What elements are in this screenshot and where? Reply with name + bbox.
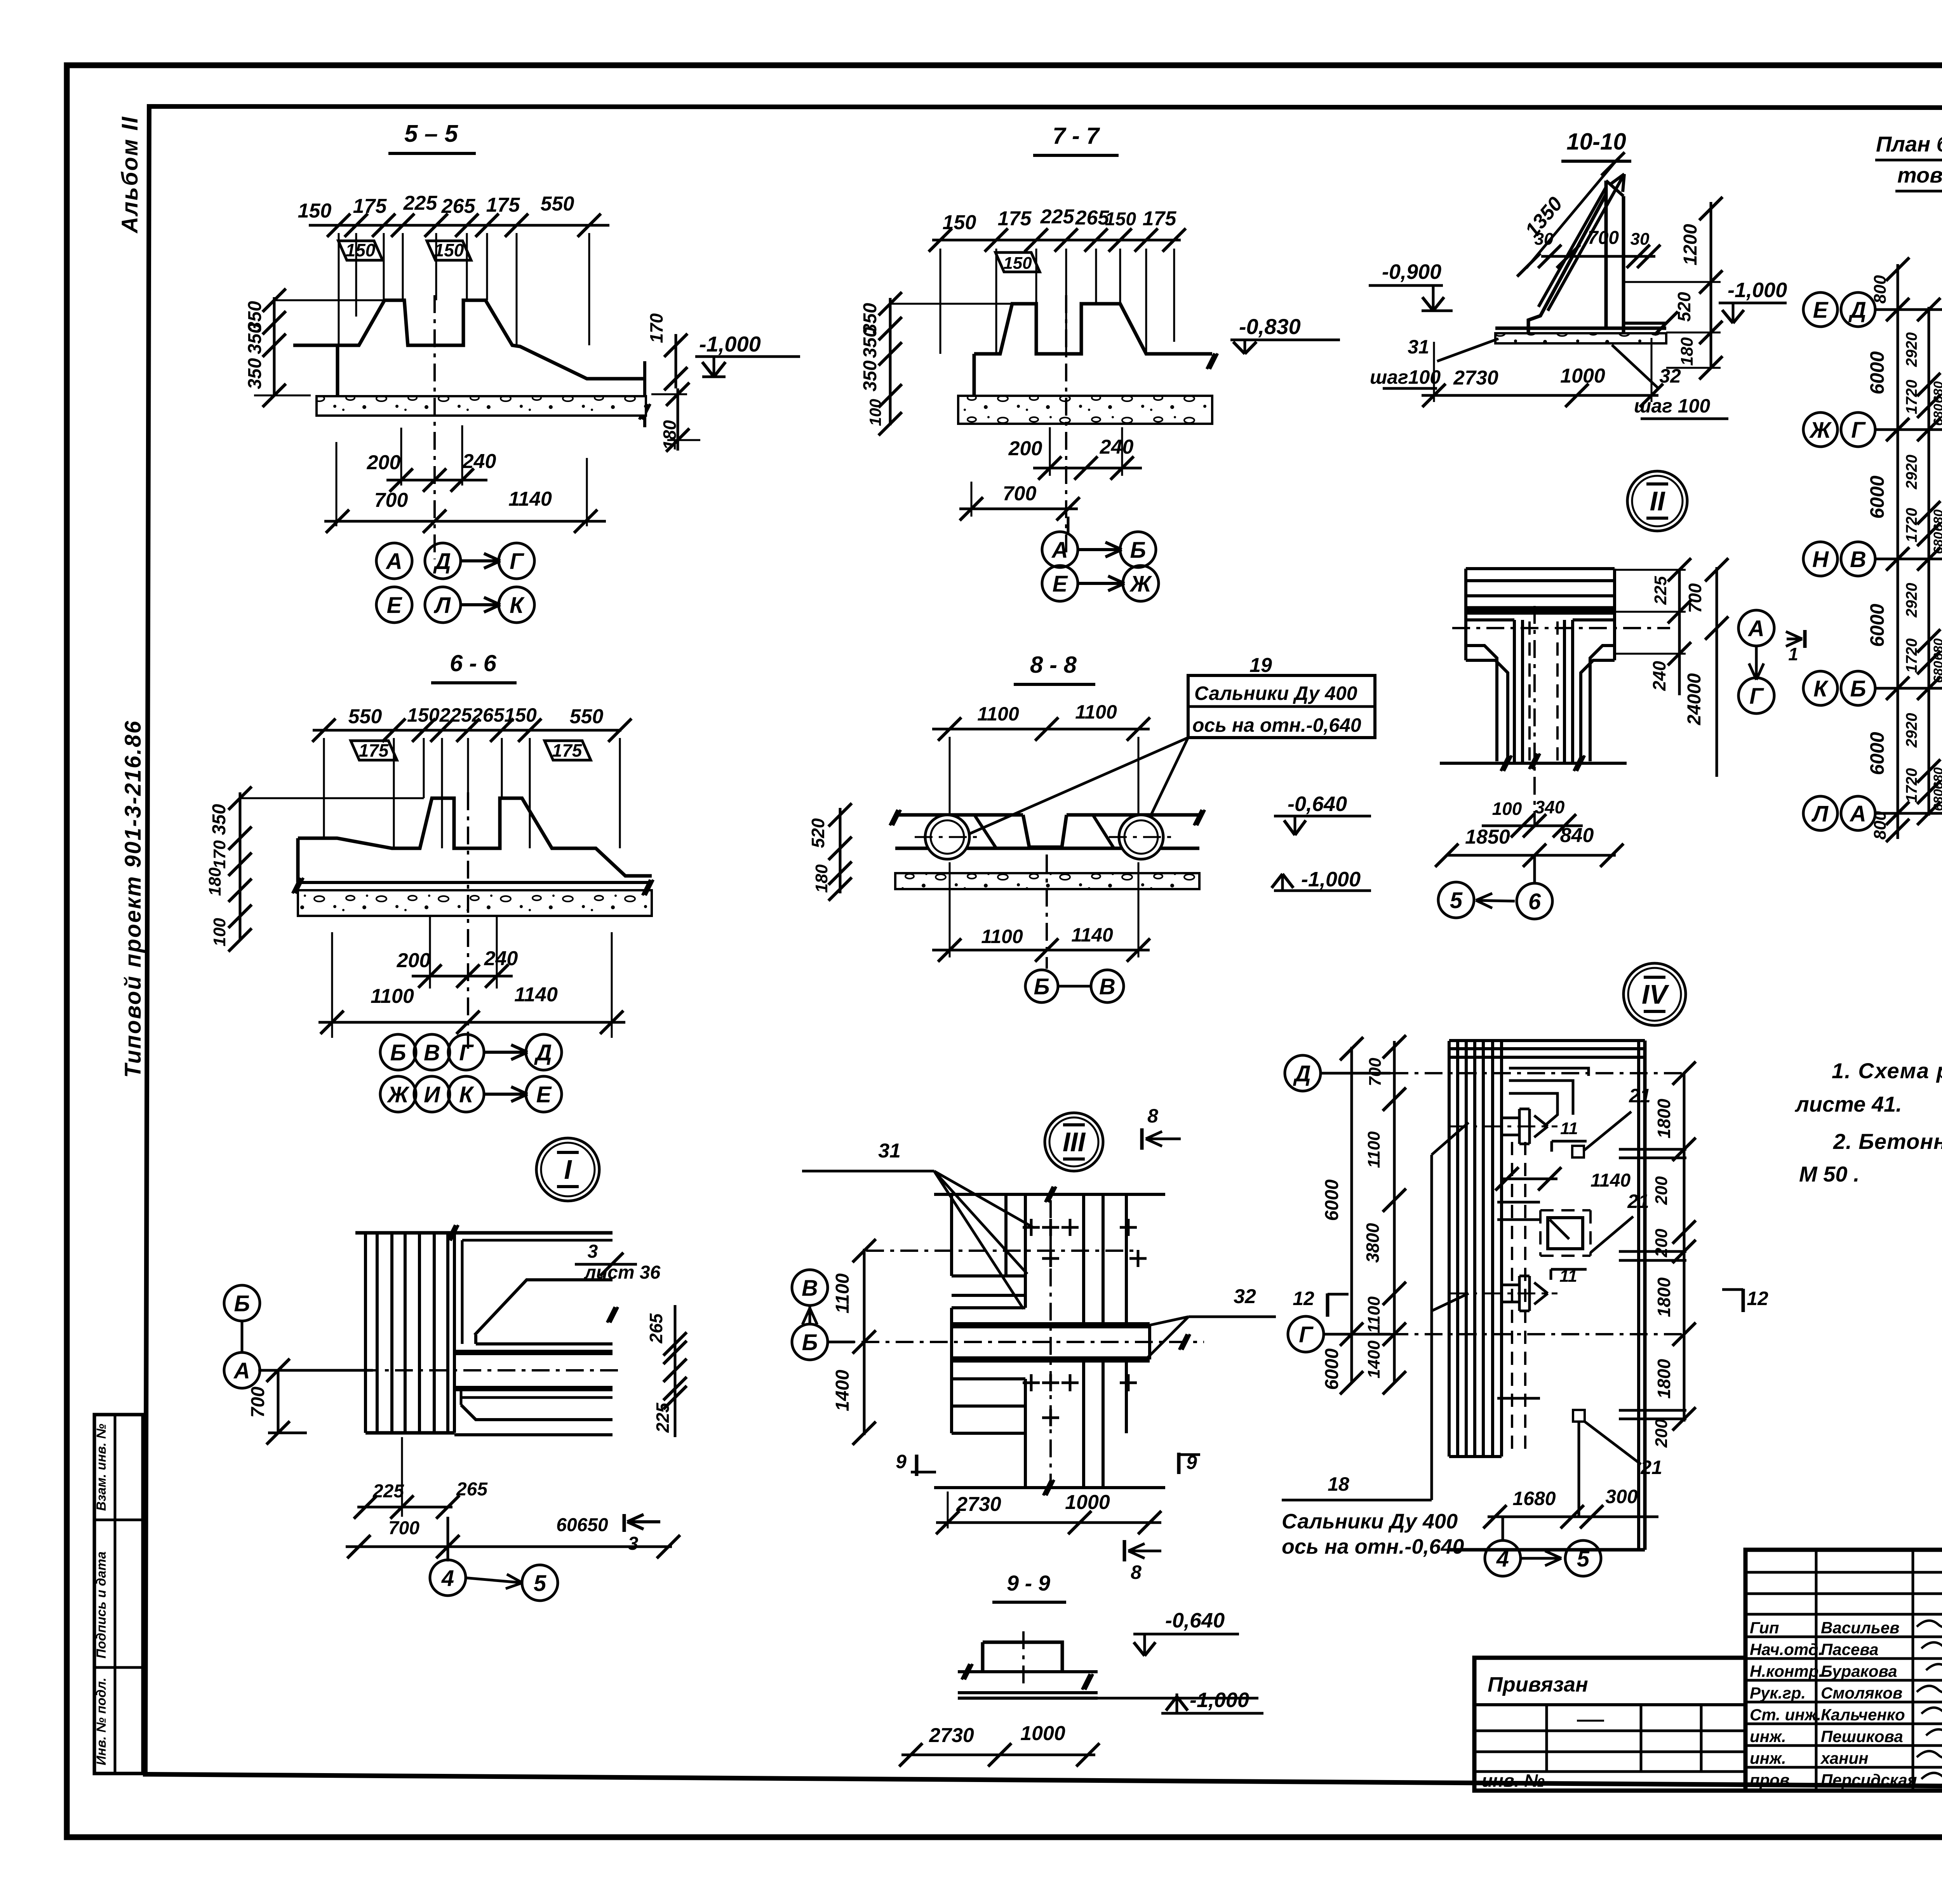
svg-text:32: 32 bbox=[1234, 1285, 1256, 1308]
svg-text:листе 41.: листе 41. bbox=[1794, 1092, 1902, 1116]
svg-text:240: 240 bbox=[462, 450, 496, 473]
svg-text:30: 30 bbox=[1535, 230, 1554, 249]
svg-text:-0,900: -0,900 bbox=[1382, 260, 1441, 284]
svg-text:150: 150 bbox=[298, 200, 332, 222]
section 10-10 rebar diagonal pos31 bbox=[1548, 174, 1624, 311]
svg-text:225: 225 bbox=[403, 192, 438, 214]
section 9-9 profile bbox=[983, 1642, 1062, 1672]
plan I bottom dims 225 265 bbox=[401, 1437, 403, 1517]
svg-text:Взам. инв. №: Взам. инв. № bbox=[94, 1424, 109, 1511]
svg-text:1140: 1140 bbox=[1590, 1170, 1631, 1191]
plan III section mark 8 bottom bbox=[1123, 1540, 1126, 1561]
svg-text:180: 180 bbox=[205, 867, 224, 896]
svg-text:240: 240 bbox=[1100, 436, 1134, 458]
section 5-5 extension lines bbox=[338, 233, 340, 345]
svg-text:31: 31 bbox=[1408, 336, 1429, 358]
plan IV axis circle D bbox=[1285, 1055, 1321, 1091]
svg-text:21: 21 bbox=[1629, 1085, 1651, 1107]
svg-text:Альбом II: Альбом II bbox=[117, 116, 143, 234]
svg-text:1800: 1800 bbox=[1654, 1277, 1674, 1317]
svg-text:100: 100 bbox=[1492, 799, 1522, 819]
svg-text:Г: Г bbox=[510, 549, 524, 574]
section 6-6 centerline bbox=[467, 792, 469, 1049]
svg-text:1720: 1720 bbox=[1903, 380, 1920, 414]
svg-text:Типовой проект 901-3-216.86: Типовой проект 901-3-216.86 bbox=[120, 720, 146, 1078]
svg-text:21: 21 bbox=[1627, 1190, 1649, 1212]
svg-text:Г: Г bbox=[1851, 418, 1866, 443]
section 8-8 top dim 1100 1100 bbox=[932, 728, 1150, 731]
svg-text:3: 3 bbox=[628, 1533, 639, 1554]
svg-text:225: 225 bbox=[1651, 576, 1670, 605]
plan I centerline bbox=[258, 1369, 621, 1371]
svg-text:150: 150 bbox=[434, 240, 464, 260]
svg-text:Д: Д bbox=[433, 549, 451, 574]
svg-text:350: 350 bbox=[245, 358, 265, 389]
svg-text:800: 800 bbox=[1871, 811, 1890, 840]
svg-text:200: 200 bbox=[397, 949, 431, 972]
svg-text:240: 240 bbox=[1649, 661, 1669, 691]
plan IV section marks 12 right bbox=[1742, 1289, 1745, 1312]
svg-text:1100: 1100 bbox=[981, 926, 1023, 947]
plan IV center rebar band bbox=[1511, 1142, 1513, 1453]
svg-text:680: 680 bbox=[1931, 532, 1942, 554]
svg-text:Б: Б bbox=[1850, 676, 1866, 701]
svg-text:ось на отн.-0,640: ось на отн.-0,640 bbox=[1282, 1535, 1464, 1558]
svg-text:Ж: Ж bbox=[386, 1082, 410, 1107]
plan III top edge bbox=[934, 1193, 1165, 1196]
svg-text:1. Схема расположения поз.: 1. Схема расположения поз. 31,32 приведе… bbox=[1832, 1058, 1942, 1083]
svg-text:8: 8 bbox=[1131, 1561, 1142, 1583]
plan III dash centerline vertical bbox=[1049, 1200, 1052, 1488]
plan IV bottom band bbox=[1449, 1455, 1502, 1458]
svg-text:К: К bbox=[459, 1082, 474, 1107]
plan III horizontal centerline B bbox=[866, 1250, 1136, 1252]
svg-text:170: 170 bbox=[646, 313, 666, 343]
plan III bottom edge bbox=[934, 1486, 1165, 1489]
svg-text:В: В bbox=[802, 1276, 818, 1301]
svg-text:-1,000: -1,000 bbox=[1728, 278, 1787, 302]
svg-text:2920: 2920 bbox=[1903, 455, 1920, 490]
svg-text:550: 550 bbox=[348, 705, 382, 728]
section 5-5 top dimension line bbox=[309, 224, 609, 227]
svg-text:31: 31 bbox=[878, 1140, 901, 1162]
plan III thick band 1 bbox=[952, 1322, 1150, 1328]
svg-text:680: 680 bbox=[1931, 639, 1942, 661]
section 8-8 axis circles B V bbox=[1046, 855, 1048, 969]
plan IV axis circles 4 5 bbox=[1502, 1517, 1504, 1541]
section 5-5 concrete profile bbox=[293, 300, 646, 379]
svg-text:6000: 6000 bbox=[1866, 604, 1888, 647]
svg-text:6000: 6000 bbox=[1866, 732, 1888, 775]
svg-text:2730: 2730 bbox=[1453, 367, 1498, 389]
svg-text:6 - 6: 6 - 6 bbox=[450, 650, 497, 676]
svg-text:550: 550 bbox=[541, 193, 574, 215]
svg-text:2920: 2920 bbox=[1903, 332, 1920, 367]
svg-text:680: 680 bbox=[1931, 768, 1942, 790]
svg-text:9 - 9: 9 - 9 bbox=[1007, 1571, 1050, 1595]
svg-text:680: 680 bbox=[1931, 404, 1942, 426]
svg-text:IV: IV bbox=[1642, 979, 1669, 1009]
plan I section mark 3 bottom bbox=[623, 1514, 626, 1532]
svg-text:Пешикова: Пешикова bbox=[1821, 1727, 1903, 1746]
svg-text:Ст. инж.: Ст. инж. bbox=[1750, 1706, 1821, 1724]
sidebar stamp boxes bbox=[94, 1415, 143, 1773]
svg-text:6: 6 bbox=[1528, 889, 1541, 914]
svg-text:300: 300 bbox=[1605, 1486, 1638, 1507]
section 5-5 axis circles row 2 bbox=[376, 587, 412, 623]
svg-text:Г: Г bbox=[459, 1040, 474, 1065]
svg-text:Нач.отд.: Нач.отд. bbox=[1750, 1640, 1823, 1659]
svg-text:180: 180 bbox=[1677, 337, 1697, 366]
svg-text:Пасева: Пасева bbox=[1821, 1640, 1878, 1659]
section 10-10 wall profile bbox=[1604, 181, 1608, 328]
svg-text:225: 225 bbox=[372, 1481, 404, 1502]
svg-text:Привязан: Привязан bbox=[1488, 1673, 1588, 1696]
svg-text:800: 800 bbox=[1871, 275, 1890, 304]
svg-text:1100: 1100 bbox=[977, 703, 1019, 725]
svg-text:12: 12 bbox=[1747, 1288, 1768, 1309]
section 8-8 profile bbox=[895, 813, 1023, 817]
svg-text:175: 175 bbox=[552, 740, 583, 761]
svg-text:4: 4 bbox=[1496, 1546, 1509, 1572]
plan I bottom dims 700 60650 bbox=[346, 1545, 672, 1548]
svg-text:5 – 5: 5 – 5 bbox=[404, 120, 458, 147]
section 7-7 gravel strip bbox=[958, 396, 1212, 424]
svg-text:700: 700 bbox=[388, 1518, 419, 1539]
svg-text:11: 11 bbox=[1560, 1119, 1578, 1138]
svg-text:-0,640: -0,640 bbox=[1288, 792, 1347, 816]
axis strip plan horizontal axes and circles bbox=[1803, 292, 1838, 327]
section 5-5 left dimension chain bbox=[273, 297, 276, 396]
axis strip plan left dim chain 6000 bbox=[1897, 264, 1899, 839]
plan I nested corner upper bbox=[462, 1239, 613, 1242]
svg-text:520: 520 bbox=[808, 818, 828, 848]
svg-text:ось на отн.-0,640: ось на отн.-0,640 bbox=[1192, 714, 1361, 736]
section 5-5 dim 700 1140 bbox=[336, 442, 338, 526]
section 5-5 dim 200 240 bbox=[400, 428, 402, 486]
section 5-5 boxed label 150 left bbox=[338, 241, 383, 260]
section 7-7 centerline bbox=[1065, 295, 1067, 555]
svg-text:8 - 8: 8 - 8 bbox=[1030, 652, 1077, 678]
svg-text:товки по оси 4: товки по оси 4 bbox=[1897, 163, 1942, 187]
svg-text:8: 8 bbox=[1147, 1105, 1158, 1127]
svg-text:1000: 1000 bbox=[1560, 365, 1605, 387]
svg-text:1800: 1800 bbox=[1654, 1098, 1674, 1138]
section 6-6 extension lines bbox=[323, 738, 325, 838]
plan IV central opening box bbox=[1540, 1209, 1590, 1211]
section 6-6 dim 1100 1140 bbox=[331, 932, 333, 1038]
section 8-8 gland circle right bbox=[1119, 815, 1163, 859]
svg-text:1720: 1720 bbox=[1903, 508, 1920, 543]
section 5-5 boxed label 150 right bbox=[427, 241, 471, 260]
svg-text:В: В bbox=[1099, 974, 1115, 999]
svg-text:18: 18 bbox=[1328, 1473, 1349, 1495]
plan I marker circle bbox=[536, 1138, 599, 1201]
svg-text:680: 680 bbox=[1931, 510, 1942, 532]
plan IV small square 21 top bbox=[1572, 1146, 1584, 1157]
plan III left wall bbox=[950, 1194, 953, 1276]
svg-text:225: 225 bbox=[653, 1402, 673, 1433]
svg-text:Васильев: Васильев bbox=[1821, 1619, 1900, 1637]
svg-text:Рук.гр.: Рук.гр. bbox=[1750, 1684, 1806, 1702]
svg-text:680: 680 bbox=[1931, 789, 1942, 811]
svg-text:1850: 1850 bbox=[1465, 826, 1510, 848]
svg-text:200: 200 bbox=[367, 451, 401, 474]
svg-text:520: 520 bbox=[1674, 292, 1694, 322]
svg-text:инв. №: инв. № bbox=[1482, 1770, 1545, 1791]
section 10-10 dim 30 700 30 bbox=[1541, 255, 1655, 258]
plan II bottom dims 100 340 bbox=[1482, 825, 1583, 827]
svg-text:21: 21 bbox=[1640, 1457, 1662, 1478]
plan IV marker circle bbox=[1624, 963, 1686, 1025]
svg-text:Ж: Ж bbox=[1129, 571, 1152, 597]
svg-text:А: А bbox=[385, 549, 402, 574]
svg-text:6000: 6000 bbox=[1866, 351, 1888, 394]
svg-text:Гип: Гип bbox=[1750, 1619, 1779, 1637]
section 7-7 axis circles bbox=[1067, 517, 1070, 533]
svg-text:200: 200 bbox=[1652, 1229, 1671, 1258]
svg-text:60650: 60650 bbox=[556, 1515, 608, 1535]
plan III marker circle bbox=[1045, 1113, 1103, 1171]
section 8-8 gland circle left bbox=[925, 815, 969, 859]
plan II axis circles 5 6 bbox=[1438, 882, 1474, 918]
svg-text:350: 350 bbox=[860, 327, 881, 358]
svg-text:700: 700 bbox=[1003, 482, 1037, 505]
svg-text:шаг 100: шаг 100 bbox=[1634, 395, 1710, 417]
svg-text:2730: 2730 bbox=[956, 1493, 1001, 1516]
svg-text:Л: Л bbox=[1811, 801, 1829, 827]
section 8-8 bottom dim 1100 1140 bbox=[949, 862, 951, 957]
svg-text:Е: Е bbox=[387, 593, 403, 618]
plan I outline bbox=[355, 1231, 613, 1235]
plan III section marks 9 bbox=[915, 1455, 919, 1476]
svg-text:Е: Е bbox=[1813, 298, 1829, 323]
plan II stem walls bbox=[1513, 620, 1516, 763]
title block privyazan box bbox=[1474, 1658, 1745, 1791]
svg-text:180: 180 bbox=[812, 864, 831, 893]
section 7-7 left dimension chain bbox=[889, 298, 892, 425]
svg-text:Буракова: Буракова bbox=[1821, 1662, 1897, 1680]
svg-text:инж.: инж. bbox=[1750, 1749, 1786, 1767]
svg-text:1100: 1100 bbox=[832, 1273, 853, 1314]
svg-text:пров.: пров. bbox=[1750, 1771, 1794, 1789]
section 7-7 top dimension line bbox=[932, 239, 1181, 242]
svg-text:1720: 1720 bbox=[1903, 639, 1920, 673]
plan IV nested corner top bbox=[1449, 1039, 1645, 1042]
svg-text:1200: 1200 bbox=[1680, 224, 1701, 265]
plan I right dims 265 225 bbox=[674, 1305, 677, 1437]
svg-text:350: 350 bbox=[209, 804, 230, 835]
plan IV left dim chains bbox=[1350, 1047, 1353, 1383]
svg-text:700: 700 bbox=[1588, 228, 1619, 248]
plan III center verticals bbox=[1004, 1194, 1008, 1276]
svg-text:1140: 1140 bbox=[1071, 924, 1113, 946]
svg-text:Д: Д bbox=[1293, 1061, 1311, 1086]
plan I wall hatch verticals bbox=[364, 1233, 367, 1433]
svg-text:170: 170 bbox=[210, 840, 229, 869]
svg-text:ханин: ханин bbox=[1820, 1749, 1869, 1767]
plan IV wall band verticals bbox=[1448, 1041, 1451, 1457]
section 8-8 left dims 520 180 bbox=[839, 808, 842, 893]
section 6-6 left dimension chain bbox=[239, 792, 242, 940]
plan II bottom dims 1850 840 bbox=[1447, 854, 1616, 857]
plan III bottom dim 2730 1000 bbox=[947, 1492, 949, 1528]
section 7-7 boxed label 150 bbox=[995, 252, 1040, 272]
plan III section mark 8 top bbox=[1140, 1128, 1144, 1150]
svg-text:1000: 1000 bbox=[1020, 1722, 1065, 1745]
svg-text:1100: 1100 bbox=[1364, 1131, 1383, 1168]
svg-text:12: 12 bbox=[1293, 1288, 1314, 1309]
svg-text:700: 700 bbox=[248, 1387, 268, 1418]
svg-text:А: А bbox=[1051, 538, 1068, 563]
plan IV small square 21 bottom bbox=[1573, 1410, 1585, 1422]
section 6-6 dim 200 240 bbox=[429, 917, 431, 989]
plan I dim 700 left bbox=[277, 1370, 280, 1433]
svg-text:1100: 1100 bbox=[1075, 701, 1117, 723]
svg-text:180: 180 bbox=[660, 420, 680, 450]
title block signature table bbox=[1745, 1550, 1942, 1791]
svg-text:В: В bbox=[1850, 547, 1866, 572]
svg-text:175: 175 bbox=[353, 195, 387, 218]
section 7-7 dim 700 bbox=[971, 482, 973, 517]
svg-text:265: 265 bbox=[456, 1479, 488, 1500]
svg-text:III: III bbox=[1063, 1127, 1086, 1157]
svg-text:4: 4 bbox=[441, 1566, 454, 1591]
svg-text:350: 350 bbox=[860, 360, 881, 392]
svg-text:В: В bbox=[424, 1040, 440, 1065]
section 5-5 right dim 170 bbox=[675, 334, 677, 388]
svg-text:700: 700 bbox=[1366, 1058, 1385, 1086]
svg-text:150: 150 bbox=[346, 240, 376, 260]
svg-text:Н.контр.: Н.контр. bbox=[1750, 1662, 1823, 1680]
svg-text:А: А bbox=[1747, 616, 1765, 641]
section 6-6 gravel strip bbox=[298, 890, 652, 916]
svg-text:1100: 1100 bbox=[1364, 1296, 1383, 1333]
svg-text:680: 680 bbox=[1931, 381, 1942, 404]
svg-text:200: 200 bbox=[1652, 1176, 1671, 1205]
axis strip plan second dim chain 2920 1720 bbox=[1928, 307, 1930, 816]
section 6-6 boxed label 175 right bbox=[545, 741, 591, 760]
plan III rebar crosses lower bbox=[1023, 1382, 1040, 1384]
svg-text:5: 5 bbox=[1577, 1546, 1590, 1572]
svg-text:6000: 6000 bbox=[1322, 1179, 1342, 1221]
svg-text:1: 1 bbox=[1788, 644, 1798, 664]
plan III axis centerline bbox=[827, 1341, 1204, 1343]
svg-text:6000: 6000 bbox=[1322, 1348, 1342, 1390]
svg-text:700: 700 bbox=[374, 489, 408, 512]
svg-text:1680: 1680 bbox=[1512, 1488, 1556, 1509]
svg-text:К: К bbox=[510, 593, 525, 618]
svg-text:150225265150: 150225265150 bbox=[407, 704, 537, 726]
svg-text:2920: 2920 bbox=[1903, 583, 1920, 618]
plan III rebar crosses upper bbox=[1023, 1226, 1040, 1229]
section 6-6 boxed label 175 left bbox=[351, 741, 397, 760]
section 7-7 dim 200 240 bbox=[1049, 427, 1051, 476]
svg-text:Д: Д bbox=[534, 1040, 552, 1065]
section 6-6 concrete profile bbox=[298, 798, 652, 876]
svg-text:3: 3 bbox=[588, 1241, 598, 1262]
svg-text:Сальники Ду 400: Сальники Ду 400 bbox=[1194, 682, 1357, 704]
svg-text:1400: 1400 bbox=[832, 1370, 853, 1411]
svg-text:1800: 1800 bbox=[1654, 1359, 1674, 1399]
svg-text:Инв. № подл.: Инв. № подл. bbox=[94, 1678, 109, 1765]
plan III axis circles V B bbox=[792, 1270, 828, 1305]
title block signatures scribbles bbox=[1917, 1617, 1942, 1627]
plan II bottom line bbox=[1440, 762, 1627, 765]
svg-text:3800: 3800 bbox=[1363, 1223, 1383, 1263]
svg-text:1720: 1720 bbox=[1903, 768, 1920, 803]
svg-text:инж.: инж. bbox=[1750, 1727, 1786, 1746]
section 5-5 gravel strip bbox=[317, 396, 646, 416]
svg-text:1140: 1140 bbox=[508, 488, 552, 510]
svg-text:265: 265 bbox=[646, 1313, 666, 1344]
svg-text:Б: Б bbox=[1130, 538, 1146, 563]
svg-text:19: 19 bbox=[1249, 654, 1272, 677]
svg-text:Б: Б bbox=[234, 1291, 250, 1316]
svg-text:10-10: 10-10 bbox=[1566, 129, 1626, 155]
svg-text:6000: 6000 bbox=[1866, 475, 1888, 519]
svg-text:2. Бетонную подготовку вып: 2. Бетонную подготовку выполнять из бето… bbox=[1833, 1129, 1942, 1154]
svg-text:А: А bbox=[1849, 801, 1866, 827]
section 5-5 centerline bbox=[433, 295, 436, 559]
plan II lower band and nested corners bbox=[1466, 612, 1615, 615]
plan III lower structure bbox=[950, 1308, 953, 1433]
svg-text:175: 175 bbox=[1143, 207, 1177, 230]
section 5-5 right dim 180 bbox=[677, 388, 679, 451]
svg-text:-1,000: -1,000 bbox=[1190, 1688, 1249, 1712]
plan I axis circles 4 5 bbox=[447, 1517, 449, 1561]
section 7-7 concrete profile bbox=[974, 304, 1212, 354]
svg-text:Б: Б bbox=[1034, 974, 1049, 999]
plan IV dim 1140 bbox=[1502, 1178, 1557, 1180]
svg-text:А: А bbox=[233, 1358, 250, 1384]
svg-text:Персидская: Персидская bbox=[1821, 1771, 1917, 1789]
svg-text:175: 175 bbox=[998, 207, 1032, 230]
svg-text:100: 100 bbox=[866, 399, 884, 426]
svg-text:1000: 1000 bbox=[1065, 1491, 1110, 1514]
svg-text:30: 30 bbox=[1631, 230, 1650, 249]
svg-text:175: 175 bbox=[359, 740, 389, 761]
svg-text:Ж: Ж bbox=[1809, 418, 1832, 443]
svg-text:Н: Н bbox=[1812, 547, 1829, 572]
svg-text:240: 240 bbox=[484, 947, 518, 970]
plan IV T-junction details bbox=[1502, 1109, 1519, 1144]
svg-text:7 - 7: 7 - 7 bbox=[1053, 123, 1100, 149]
svg-text:Кальченко: Кальченко bbox=[1821, 1706, 1905, 1724]
svg-text:340: 340 bbox=[1535, 797, 1565, 817]
svg-text:5: 5 bbox=[534, 1571, 546, 1596]
plan II axis A centerline bbox=[1452, 627, 1670, 629]
svg-text:350: 350 bbox=[245, 323, 265, 354]
plan I slab edge lines right upper bbox=[454, 1350, 613, 1355]
svg-text:Е: Е bbox=[1053, 571, 1068, 597]
svg-text:550: 550 bbox=[570, 705, 604, 728]
svg-text:Г: Г bbox=[1299, 1322, 1314, 1347]
section 6-6 axis circles row 1 bbox=[380, 1034, 416, 1070]
svg-text:шаг100: шаг100 bbox=[1370, 366, 1441, 388]
svg-text:200: 200 bbox=[1652, 1419, 1671, 1448]
section 6-6 top dimension line bbox=[313, 729, 621, 732]
svg-text:2920: 2920 bbox=[1903, 713, 1920, 748]
svg-text:175: 175 bbox=[486, 194, 520, 216]
section 9-9 bottom dim 2730 1000 bbox=[901, 1754, 1095, 1756]
plan IV bottom dims 1680 300 bbox=[1488, 1516, 1658, 1518]
section 10-10 right dim chain 1200 520 180 bbox=[1710, 202, 1712, 368]
svg-text:1400: 1400 bbox=[1364, 1340, 1383, 1378]
svg-text:1140: 1140 bbox=[514, 983, 558, 1006]
svg-text:-1,000: -1,000 bbox=[1301, 868, 1361, 891]
svg-text:200: 200 bbox=[1008, 437, 1042, 460]
